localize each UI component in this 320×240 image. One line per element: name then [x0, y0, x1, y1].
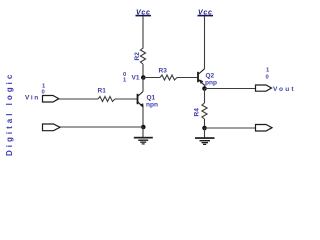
resistor R3	[159, 68, 178, 81]
svg-text:V1: V1	[132, 75, 140, 82]
svg-text:Digital logic: Digital logic	[5, 72, 14, 156]
node output junction	[202, 86, 207, 91]
wire R2 to node V1	[142, 64, 144, 78]
wire Q1 emitter to ground node	[142, 107, 144, 127]
node ground-right junction	[202, 126, 207, 131]
resistor R4	[194, 103, 208, 119]
svg-text:1: 1	[266, 68, 270, 74]
wire Vcc-right to Q2 collector	[204, 16, 206, 68]
node ground-left junction	[141, 125, 146, 130]
connector Vout	[256, 85, 296, 93]
svg-text:Q2: Q2	[206, 73, 215, 80]
svg-text:npn: npn	[146, 102, 158, 109]
Vin state annotation 1/0	[42, 84, 47, 96]
ground (right)	[195, 128, 215, 145]
svg-text:R1: R1	[98, 88, 107, 95]
svg-text:pnp: pnp	[205, 80, 217, 87]
node V1	[132, 75, 146, 82]
transistor Q2	[198, 69, 217, 87]
resistor R2	[134, 48, 146, 64]
label Digital logic	[5, 72, 14, 156]
svg-text:1: 1	[123, 78, 127, 84]
wire Q2 emitter to output node	[204, 85, 206, 88]
wire Vcc-left to R2	[142, 16, 144, 48]
transistor Q1	[138, 92, 158, 109]
svg-text:0: 0	[42, 90, 45, 96]
wire output node to Vout connector	[205, 88, 256, 90]
wire Q1 collector to V1	[142, 78, 144, 92]
ground (left)	[134, 127, 153, 145]
connector Vin	[25, 95, 59, 103]
svg-text:R2: R2	[134, 52, 141, 61]
connector lower-right	[256, 125, 273, 132]
connector lower-left	[43, 124, 61, 131]
wire V1 to R3	[143, 77, 160, 79]
svg-text:0: 0	[266, 75, 269, 81]
resistor R1	[98, 88, 116, 102]
wire ground node to lower-left connector	[60, 126, 143, 128]
wire output node to R4	[204, 89, 206, 104]
wire ground node to lower-right connector	[205, 127, 256, 129]
svg-text:Vin: Vin	[25, 95, 40, 102]
wire R1 to Q1 base	[115, 98, 137, 100]
power Vcc (right)	[198, 10, 214, 17]
node V1 state annotation 0/1	[123, 72, 127, 84]
svg-text:Vout: Vout	[273, 86, 296, 93]
wire R3 to Q2 base	[177, 77, 198, 79]
svg-text:R3: R3	[159, 68, 168, 75]
power Vcc (left)	[136, 10, 152, 17]
svg-text:Q1: Q1	[147, 95, 156, 102]
Vout state annotation 1/0	[266, 68, 271, 81]
wire Vin to R1	[59, 98, 98, 100]
svg-text:R4: R4	[194, 108, 201, 117]
wire R4 to ground node	[204, 119, 206, 128]
